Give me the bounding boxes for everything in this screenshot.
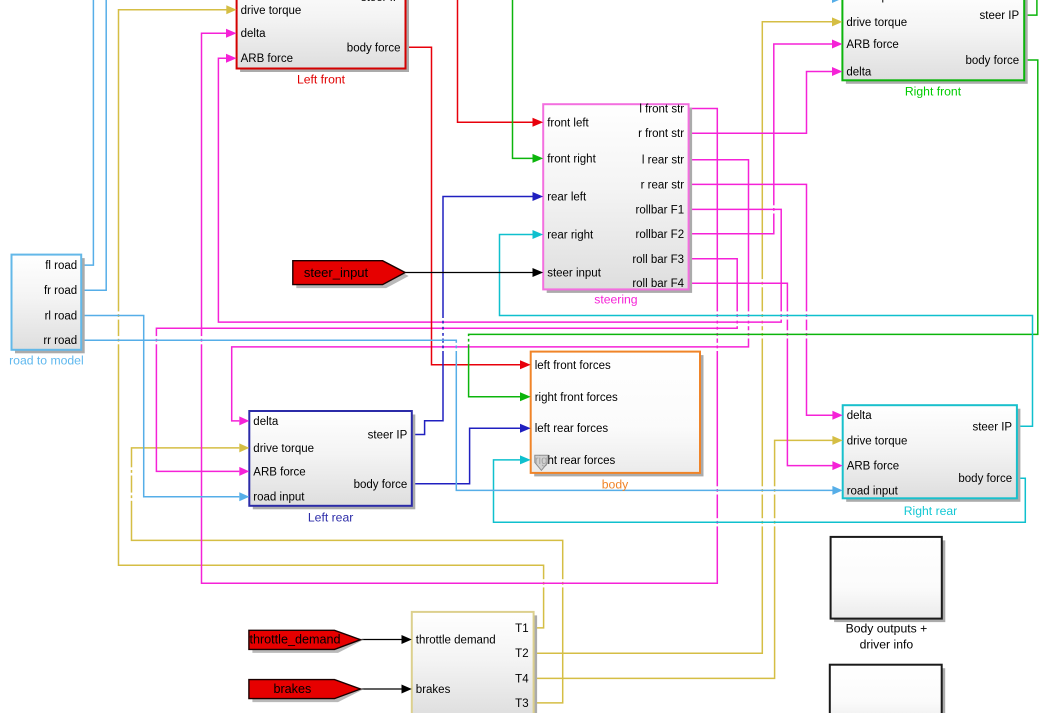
input tag: steer_input	[293, 261, 409, 288]
annotation badge on body block	[535, 455, 548, 470]
svg-text:T2: T2	[515, 648, 528, 660]
wire: r front str to Right front delta (magenta)	[689, 72, 833, 134]
svg-text:Left front: Left front	[297, 73, 346, 87]
block: Left front (subsystem)	[226, 0, 409, 72]
svg-text:rollbar F2: rollbar F2	[636, 229, 685, 241]
svg-text:Right front: Right front	[905, 85, 962, 99]
wire: Right rear body force to body right rear forces (cyan)	[494, 460, 1026, 522]
wire: T4 to Right rear drive torque (yellow)	[534, 440, 833, 678]
wire: steer_input to steering steer input (black)	[405, 272, 532, 274]
svg-text:steering: steering	[594, 293, 637, 307]
wire: T3 to Left rear drive torque (yellow)	[132, 448, 563, 703]
wire: fl road up off-screen (light blue)	[81, 0, 93, 265]
svg-text:roll bar F4: roll bar F4	[632, 278, 684, 290]
svg-text:steer IP: steer IP	[368, 430, 408, 442]
svg-text:delta: delta	[241, 28, 267, 40]
svg-text:ARB force: ARB force	[241, 53, 293, 65]
svg-text:l front str: l front str	[639, 104, 684, 116]
svg-text:steer input: steer input	[547, 267, 602, 279]
svg-text:rear right: rear right	[547, 230, 594, 242]
block: road to model (source)	[12, 255, 85, 354]
svg-text:drive torque: drive torque	[846, 17, 907, 29]
svg-text:body force: body force	[965, 55, 1019, 67]
svg-text:road input: road input	[253, 492, 305, 504]
svg-text:delta: delta	[846, 67, 872, 79]
block: Left rear (subsystem)	[239, 411, 415, 509]
wire crossing breaks	[117, 205, 808, 587]
wire: l front str to Left front delta (magenta)	[202, 33, 718, 583]
wire: T1 to Left front drive torque (yellow)	[119, 10, 544, 628]
block: steering (subsystem)	[533, 104, 693, 293]
svg-text:ARB force: ARB force	[846, 39, 898, 51]
svg-text:front right: front right	[547, 153, 596, 165]
svg-text:front left: front left	[547, 117, 589, 129]
wire: Right front steer IP up off-screen (green)	[1024, 0, 1037, 15]
svg-text:drive torque: drive torque	[847, 435, 908, 447]
svg-text:delta: delta	[253, 416, 279, 428]
block: Body outputs + driver info	[831, 537, 946, 622]
svg-text:body force: body force	[354, 479, 408, 491]
svg-text:left rear forces: left rear forces	[535, 423, 609, 435]
input tag: throttle_demand	[249, 630, 364, 653]
svg-text:steer IP: steer IP	[972, 421, 1012, 433]
svg-text:Right rear: Right rear	[904, 504, 958, 518]
svg-text:l rear str: l rear str	[642, 155, 684, 167]
svg-text:drive torque: drive torque	[253, 443, 314, 455]
block: bottom-right unnamed (clipped)	[830, 665, 945, 713]
wire: l rear str to Left rear delta (magenta)	[232, 160, 749, 421]
svg-text:throttle_demand: throttle_demand	[249, 633, 340, 647]
svg-text:road input: road input	[847, 485, 899, 497]
input tag: brakes	[249, 680, 364, 703]
wire: r rear str to Right rear delta (magenta)	[689, 184, 833, 415]
wire: brakes to powertrain (black)	[362, 688, 402, 690]
svg-text:drive torque: drive torque	[241, 5, 302, 17]
wire: Left rear steer IP to steering rear left (dark blue)	[412, 197, 533, 435]
svg-text:r front str: r front str	[638, 128, 684, 140]
svg-text:delta: delta	[847, 410, 873, 422]
svg-text:steer_input: steer_input	[304, 265, 369, 280]
svg-text:rl road: rl road	[45, 311, 78, 323]
svg-text:body force: body force	[958, 473, 1012, 485]
wire: rollbar F1 to Left front ARB force (magenta)	[218, 58, 781, 322]
svg-text:Body outputs +: Body outputs +	[846, 622, 928, 636]
block: Right front (subsystem)	[832, 0, 1028, 84]
wire: Left rear body force to body left rear forces (dark blue)	[412, 428, 520, 484]
wire: fr road up off-screen (light blue)	[81, 0, 106, 290]
svg-text:fl road: fl road	[45, 260, 77, 272]
svg-text:T4: T4	[515, 673, 529, 685]
svg-text:T3: T3	[515, 698, 528, 710]
svg-text:ARB force: ARB force	[847, 461, 899, 473]
wire: throttle_demand to powertrain (black)	[362, 639, 402, 641]
svg-text:rear left: rear left	[547, 192, 587, 204]
svg-text:rollbar F1: rollbar F1	[636, 204, 685, 216]
wire: roll bar F3 to Left rear ARB force (magenta)	[156, 259, 737, 472]
wire: rr road to Right rear road input (light blue)	[81, 340, 833, 490]
svg-text:ARB force: ARB force	[253, 466, 305, 478]
svg-text:rr road: rr road	[43, 335, 77, 347]
svg-text:throttle demand: throttle demand	[416, 635, 496, 647]
svg-text:steer IP: steer IP	[361, 0, 401, 4]
block: Right rear (subsystem)	[832, 405, 1020, 502]
svg-text:brakes: brakes	[416, 684, 451, 696]
wire: from top to steering front right (green)	[513, 0, 533, 158]
wire: rl road to Left rear road input (light blue)	[81, 316, 239, 497]
svg-text:brakes: brakes	[273, 682, 311, 696]
wire: Right rear steer IP to steering rear right (cyan)	[500, 235, 1033, 427]
svg-text:steer IP: steer IP	[980, 10, 1020, 22]
wire: T2 to Right front drive torque (yellow)	[534, 22, 833, 654]
wire: roll bar F4 to Right rear ARB force (magenta)	[689, 283, 833, 465]
svg-text:fr road: fr road	[44, 285, 77, 297]
svg-text:road to model: road to model	[9, 353, 84, 367]
block: body (subsystem)	[520, 352, 704, 477]
svg-text:T1: T1	[515, 623, 528, 635]
wire: Left front body force to body left front forces (red)	[406, 47, 521, 365]
svg-text:Left rear: Left rear	[308, 510, 353, 524]
wire: Left front steer IP to steering front left (red)	[458, 0, 533, 122]
svg-text:road input: road input	[846, 0, 898, 3]
svg-text:body force: body force	[347, 42, 401, 54]
svg-text:driver info: driver info	[860, 638, 914, 652]
svg-text:left front forces: left front forces	[535, 360, 611, 372]
svg-text:body: body	[602, 477, 629, 491]
svg-text:roll bar F3: roll bar F3	[632, 254, 684, 266]
block: powertrain (subsystem, clipped at bottom)	[402, 612, 538, 713]
wire: rollbar F2 to Right front ARB force (magenta)	[689, 44, 833, 234]
wire: Right front body force to body right front forces (green)	[469, 60, 1038, 397]
svg-text:right front forces: right front forces	[535, 392, 618, 404]
svg-text:r rear str: r rear str	[641, 179, 685, 191]
